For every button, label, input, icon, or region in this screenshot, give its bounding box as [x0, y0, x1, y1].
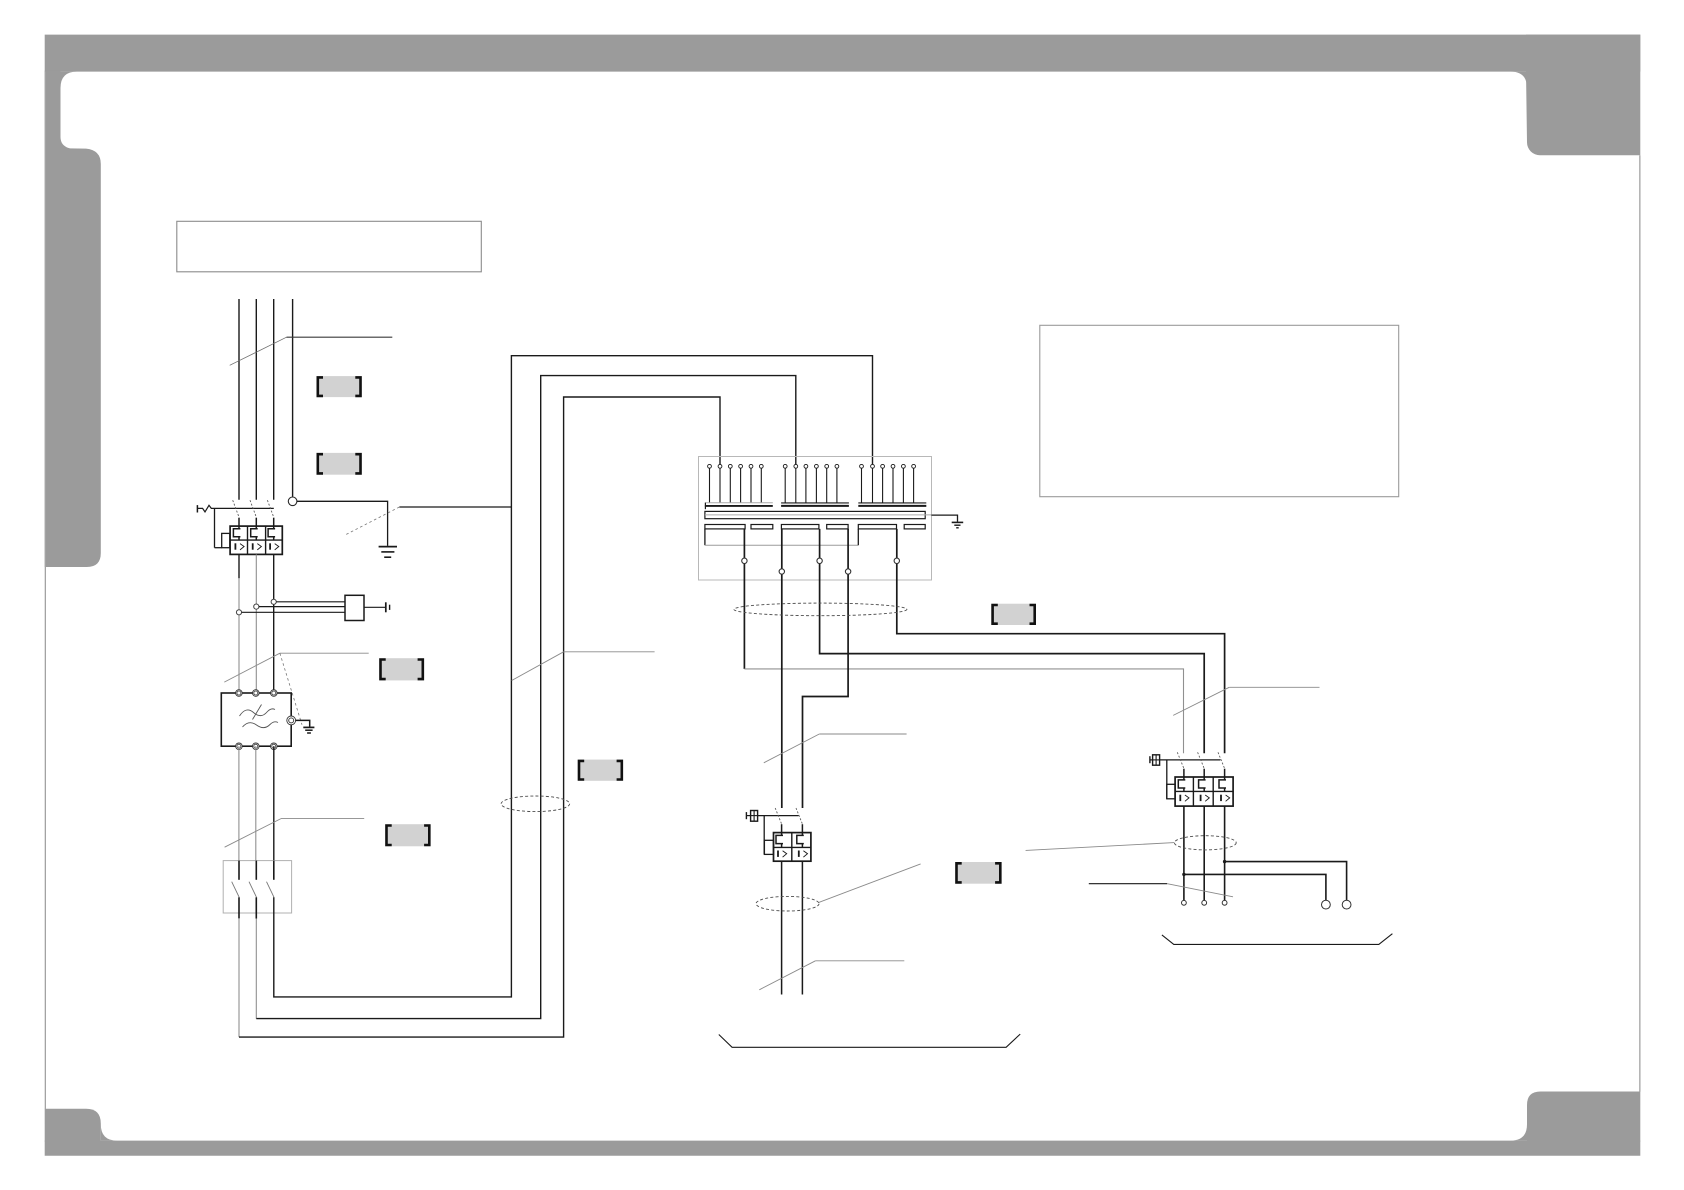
wire Q3 pole2 output	[1203, 806, 1205, 900]
breaker Q1 pole 1 blade	[233, 500, 240, 518]
redaction tag box (part code lower)	[317, 453, 362, 475]
breaker Q1 pole 3 magnetic element I>	[270, 543, 279, 550]
connector CN3 pin header group 3	[860, 464, 916, 503]
wire tap pole3 to monitor box	[276, 601, 345, 603]
terminal circle output 2	[1202, 900, 1207, 905]
cable bundle ellipse below board	[734, 603, 907, 616]
label leader for noise filter	[224, 653, 368, 682]
node board output E circle	[894, 558, 899, 563]
label leader for incoming supply lines	[230, 337, 393, 365]
node N terminal circle	[288, 497, 297, 506]
label leader for contactor	[225, 819, 365, 848]
breaker Q1 pole 3 blade	[267, 500, 274, 518]
breaker Q2 pole 2 magnetic element I>	[799, 851, 808, 858]
wire Q3 pole1 output	[1183, 806, 1185, 900]
group bracket right bottom	[1162, 934, 1393, 945]
wire N to PE ground	[297, 501, 388, 546]
note box (empty title block top-left)	[177, 221, 482, 271]
terminal circle aux 2	[1342, 900, 1351, 909]
redaction tag box (harness code center)	[991, 604, 1036, 625]
board relay block 3	[781, 525, 819, 529]
node Q3 pole3 tap junction	[1223, 860, 1226, 863]
board main bus bar strip	[705, 511, 932, 518]
noise filter terminal 1 out	[236, 743, 243, 750]
wire output C to right breaker pole2	[820, 529, 1205, 753]
node tap junction pole2	[254, 604, 259, 609]
terminal circle output 3	[1222, 900, 1227, 905]
breaker Q2 pole 2 blade	[796, 808, 803, 824]
noise filter Z1 body	[221, 693, 291, 746]
redaction tag box (part code upper)	[317, 376, 362, 397]
node tap junction pole3	[271, 599, 276, 604]
wire Q1 pole1 output	[238, 554, 240, 693]
connector CN3 bus bar	[858, 503, 926, 506]
noise filter terminal 2 in	[253, 690, 260, 697]
label leader for PE point	[399, 506, 511, 508]
label leader for wire B	[764, 734, 907, 763]
group bracket center bottom	[719, 1034, 1020, 1047]
breaker Q2 (2-pole circuit breaker, center)	[746, 811, 811, 862]
breaker Q2 pole 2 thermal element	[797, 824, 804, 847]
wire Q3 pole3 tap to aux terminal	[1225, 862, 1347, 901]
wire tap pole1 to monitor box	[242, 611, 345, 613]
wire Q2 pole1 output	[781, 861, 783, 994]
node board output D circle	[845, 569, 850, 574]
wire run phase1 to board connector CN3	[239, 397, 720, 1037]
breaker Q3 (3-pole circuit breaker, right)	[1150, 755, 1233, 806]
board relay block 2	[751, 525, 773, 529]
ground symbol at board	[952, 522, 964, 527]
contactor K1 contact 2	[249, 861, 257, 919]
main power board U1 outline	[699, 457, 932, 581]
board relay block 4	[827, 525, 848, 529]
redaction tag box (filter code)	[379, 658, 424, 680]
breaker Q1 pole 1 thermal element	[233, 518, 240, 540]
monitor box	[345, 595, 364, 620]
noise filter earth terminal	[287, 716, 296, 725]
breaker Q3 pole 3 blade	[1218, 752, 1225, 768]
noise filter terminal 1 in	[236, 690, 243, 697]
noise filter wave symbol upper	[240, 709, 276, 716]
leader ellipse2 to harness tag	[819, 864, 921, 903]
wire monitor box to chassis	[364, 606, 386, 608]
wire L2 incoming supply line	[255, 299, 257, 500]
breaker Q2 pole 1 blade	[775, 808, 782, 824]
wire run phase3 to board connector CN1	[274, 356, 873, 997]
breaker Q3 pole 1 blade	[1177, 752, 1184, 768]
wire output D to center breaker pole2	[803, 529, 849, 808]
node board output B circle	[779, 569, 784, 574]
label leader for right breaker feed	[1173, 687, 1319, 715]
redaction tag box (riser cable code)	[578, 760, 623, 781]
breaker Q1 pole 2 thermal element	[251, 518, 258, 540]
note box (empty info block top-right)	[1040, 325, 1399, 496]
wire tap pole2 to monitor box	[259, 606, 345, 608]
noise filter terminal 3 in	[271, 690, 278, 697]
board relay block 5	[858, 525, 896, 529]
terminal circle output 1	[1182, 900, 1187, 905]
noise filter terminal 2 out	[253, 743, 260, 750]
wire Q3 pole1 tap to aux terminal	[1184, 874, 1326, 900]
wire board PE stub	[931, 515, 957, 522]
breaker Q3 pole 3 thermal element	[1219, 769, 1226, 792]
label leader for center outputs	[759, 961, 904, 990]
wire Q1 pole2 output	[255, 554, 257, 693]
node board output C circle	[817, 558, 822, 563]
connector CN1 bus bar	[705, 503, 773, 510]
board relay block 6	[904, 525, 925, 529]
wire output E to right breaker pole3	[897, 529, 1225, 753]
wire L1 incoming supply line	[238, 299, 240, 500]
noise filter wave symbol lower	[243, 722, 279, 728]
breaker Q3 pole 1 thermal element	[1178, 769, 1185, 792]
noise filter wave slash	[253, 705, 262, 720]
breaker Q3 pole 3 magnetic element I>	[1221, 795, 1230, 802]
breaker Q1 pole 1 magnetic element I>	[235, 543, 244, 550]
board relay block 1	[705, 525, 745, 529]
cable bundle ellipse right outputs	[1174, 836, 1236, 850]
breaker Q3 pole 2 magnetic element I>	[1201, 795, 1210, 802]
breaker Q1 pole 2 magnetic element I>	[253, 543, 262, 550]
cable bundle ellipse riser run	[501, 796, 570, 812]
wire N incoming supply line	[292, 299, 294, 497]
node Q3 pole1 tap junction	[1182, 873, 1185, 876]
label leader for riser cable	[512, 652, 655, 681]
ground PE symbol (main earth)	[379, 547, 397, 558]
contactor K1 contact 3	[267, 861, 275, 898]
connector CN1 pin header group 1	[708, 464, 764, 502]
leader harness tag to ellipse3	[1026, 843, 1175, 851]
wire Q2 pole2 output	[801, 861, 803, 994]
wire filter out 2	[255, 746, 257, 860]
connector CN2 bus bar	[781, 503, 849, 506]
wire filter out 3	[273, 746, 275, 860]
contactor K1 contact 1	[232, 861, 240, 919]
label leader for output terminals	[1089, 884, 1233, 897]
connector CN2 pin header group 2	[783, 464, 839, 503]
wire run phase2 to board connector CN2	[256, 376, 796, 1019]
breaker Q3 pole 2 blade	[1198, 752, 1205, 768]
terminal circle aux 1	[1322, 900, 1331, 909]
noise filter terminal 3 out	[271, 743, 278, 750]
wire Q3 pole3 output	[1224, 806, 1226, 900]
breaker Q1 pole 2 blade	[250, 500, 257, 518]
wire output B to center breaker pole1	[781, 529, 783, 808]
wire Q1 pole3 output	[273, 554, 275, 693]
breaker Q3 pole 1 magnetic element I>	[1180, 795, 1189, 802]
wire L3 incoming supply line	[273, 299, 275, 500]
board inner trace under block1	[705, 529, 858, 545]
leader dashed pointer to ground	[345, 507, 400, 535]
leader dashed pointer to filter ground	[280, 653, 302, 725]
wire filter out 1	[238, 746, 240, 860]
wire filter earth to ground	[296, 720, 310, 726]
chassis terminal bars	[386, 602, 390, 612]
cable bundle ellipse center outputs	[756, 896, 819, 911]
node board output A circle	[742, 558, 747, 563]
redaction tag box (harness code right)	[955, 862, 1001, 884]
breaker Q1 (3-pole main circuit breaker)	[197, 505, 282, 554]
breaker Q3 pole 2 thermal element	[1199, 769, 1206, 792]
breaker Q1 pole 3 thermal element	[268, 518, 275, 540]
node tap junction pole1	[236, 610, 241, 615]
breaker Q2 pole 1 magnetic element I>	[778, 851, 787, 858]
ground symbol at filter	[303, 727, 314, 733]
redaction tag box (contactor code)	[385, 824, 430, 846]
breaker Q2 pole 1 thermal element	[776, 824, 783, 847]
contactor K1 body	[223, 861, 291, 913]
wire output A to right breaker pole1 (gray run)	[744, 529, 1183, 753]
